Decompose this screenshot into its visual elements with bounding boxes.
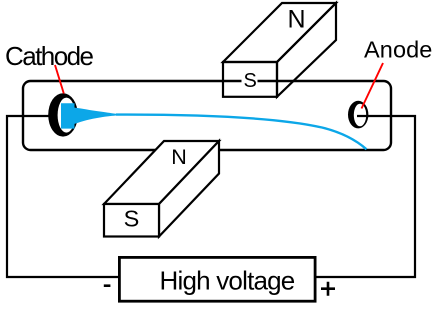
magnet top: right side face — [277, 3, 336, 97]
magnet top: top face (N pole) — [223, 3, 336, 62]
vacuum tube envelope — [23, 81, 391, 150]
svg-text:S: S — [124, 206, 140, 232]
svg-text:High voltage: High voltage — [160, 265, 295, 295]
wire: right lead from anode to positive terminal — [316, 116, 415, 277]
magnet top: front face (S pole) — [223, 62, 277, 97]
label S on bottom magnet — [124, 206, 140, 232]
label N on bottom magnet — [171, 145, 187, 169]
label N on top magnet — [287, 6, 306, 34]
high voltage supply box — [119, 257, 315, 301]
label High voltage — [160, 265, 295, 295]
label Cathode — [5, 41, 94, 71]
svg-text:Cathode: Cathode — [5, 41, 94, 71]
negative terminal sign — [104, 284, 111, 287]
anode electrode — [348, 101, 368, 129]
svg-text:Anode: Anode — [364, 37, 432, 63]
red pointer line to cathode — [55, 65, 64, 94]
magnet bottom: front face (S pole) — [104, 204, 159, 237]
svg-text:S: S — [244, 70, 257, 92]
red pointer line to anode — [362, 63, 384, 109]
electron beam curved ray — [116, 115, 367, 150]
electron beam cone — [61, 103, 118, 128]
label Anode — [364, 37, 432, 63]
magnet bottom: right side face — [159, 141, 219, 237]
positive terminal sign — [321, 282, 335, 296]
wire: left lead from cathode to negative terminal — [7, 116, 118, 277]
svg-text:N: N — [287, 6, 305, 34]
magnet bottom: top face (N pole) — [104, 141, 219, 204]
label S on top magnet — [242, 70, 258, 92]
svg-text:N: N — [171, 145, 187, 169]
cathode electrode — [48, 93, 78, 136]
